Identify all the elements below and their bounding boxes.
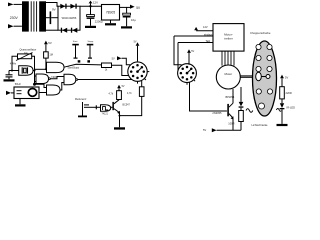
schmitt gate <box>101 105 111 112</box>
disc <box>253 41 277 116</box>
svg-text:Start: Start <box>73 40 78 43</box>
svg-text:220R: 220R <box>286 91 292 95</box>
gate A <box>47 62 65 72</box>
wire S1 to 4.7k <box>141 81 143 87</box>
svg-text:Start/Stopp: Start/Stopp <box>68 66 80 69</box>
resistor R6 220R <box>280 87 285 99</box>
motor M1 <box>216 65 240 89</box>
svg-text:4,7k: 4,7k <box>127 92 132 95</box>
motor wires <box>222 51 234 66</box>
regulator IC1 78S05 <box>102 5 120 21</box>
svg-text:5V: 5V <box>191 50 194 53</box>
svg-text:Chopperscheibe: Chopperscheibe <box>250 31 271 35</box>
svg-text:5V: 5V <box>122 85 125 88</box>
svg-text:Motor: Motor <box>224 72 232 76</box>
wire S2 to 2N3055 base <box>190 82 227 111</box>
svg-text:ein/aus: ein/aus <box>204 32 213 36</box>
5V arrow <box>280 75 284 79</box>
resistor R1 <box>45 44 47 52</box>
shaft <box>240 75 254 77</box>
osc output wire <box>33 70 35 72</box>
ground <box>121 26 132 28</box>
wire secondary mid tap <box>46 17 50 19</box>
LED D6 <box>280 103 284 108</box>
out rail <box>120 6 131 8</box>
ground <box>277 124 288 126</box>
trimmer capacitor C3 <box>18 54 32 59</box>
resistor R5 100R <box>239 111 244 122</box>
output arrow 5V <box>130 5 135 9</box>
wire <box>14 3 22 5</box>
bridge diode D2 <box>70 4 75 9</box>
wire gate to base <box>111 106 113 108</box>
capacitor C2 10u <box>126 7 128 13</box>
regulator gnd <box>110 20 112 23</box>
svg-text:12V: 12V <box>93 1 98 5</box>
resistor R2 1k <box>102 63 112 68</box>
vertical wire V1 <box>174 36 182 65</box>
gate B input stubs <box>35 75 37 77</box>
vertical wire V2 <box>177 43 179 72</box>
node +12V junction <box>89 5 91 7</box>
12V arrow <box>194 27 198 30</box>
input arrow <box>6 91 11 95</box>
divider box <box>14 87 39 99</box>
svg-text:10µ: 10µ <box>131 18 136 22</box>
svg-text:5V: 5V <box>285 76 288 80</box>
wire secondary top to bridge <box>46 3 58 7</box>
svg-text:Takt: Takt <box>206 39 211 43</box>
wire A gate A out to resistor <box>64 64 102 67</box>
svg-text:1M: 1M <box>50 54 53 57</box>
mains input terminal top <box>8 3 14 7</box>
wire C out to D in <box>60 83 64 91</box>
gate C input wires <box>35 84 47 87</box>
svg-text:5V: 5V <box>112 57 115 61</box>
svg-text:5V: 5V <box>134 40 137 43</box>
ticks <box>194 80 196 82</box>
switch S1 <box>128 62 147 81</box>
transformer Tr1 primary <box>22 1 29 31</box>
gate C <box>47 85 61 95</box>
bridge diode D4 <box>71 28 72 33</box>
svg-text:BC547: BC547 <box>123 104 131 107</box>
mains input terminal bottom <box>8 24 14 28</box>
svg-text:2N3055: 2N3055 <box>212 111 222 115</box>
wire <box>14 25 22 27</box>
svg-text:12V: 12V <box>203 25 208 29</box>
enable wire <box>174 35 213 37</box>
supply arrow 5V <box>44 41 48 45</box>
capacitor C1 2200u <box>90 6 92 14</box>
svg-text:IR-LED: IR-LED <box>287 106 296 110</box>
wire tap to bridge <box>51 17 58 19</box>
holes <box>256 44 273 109</box>
output wire <box>39 92 47 94</box>
svg-text:74121: 74121 <box>102 114 109 116</box>
resistor R3 4.7k <box>139 87 144 97</box>
light squiggle <box>246 109 253 113</box>
tap bar <box>50 11 52 24</box>
svg-text:9V: 9V <box>52 7 56 11</box>
ground <box>85 26 96 28</box>
bridge diode D3 <box>61 28 62 33</box>
gate D <box>64 74 76 84</box>
svg-text:50Hz: 50Hz <box>15 82 22 86</box>
bridge rectifier B1 outline <box>58 6 80 30</box>
feedback wire right <box>32 56 35 70</box>
svg-text:Quarzoszillator: Quarzoszillator <box>20 48 37 51</box>
transformer secondary <box>39 1 46 31</box>
svg-text:78S05: 78S05 <box>106 10 115 14</box>
ground <box>105 23 116 25</box>
gate B <box>36 74 49 84</box>
svg-text:Stopp: Stopp <box>88 40 94 43</box>
photodiode D5 <box>240 87 242 102</box>
svg-text:W04C/2W06: W04C/2W06 <box>62 16 77 20</box>
svg-text:Referenz: Referenz <box>75 97 87 101</box>
svg-text:5V: 5V <box>48 41 52 45</box>
transformer core <box>31 1 36 31</box>
svg-text:4MHz: 4MHz <box>10 63 17 66</box>
svg-text:treiber: treiber <box>224 37 233 41</box>
oscillator gate with crystal X1 <box>19 66 33 75</box>
ground <box>114 127 125 129</box>
svg-text:100R: 100R <box>228 121 234 125</box>
dc+ rail <box>80 5 102 7</box>
switch S2 <box>178 64 197 83</box>
switch ticks <box>144 79 146 81</box>
5V arrow above S2 <box>187 49 191 53</box>
wire gate D out to S1 <box>78 79 132 81</box>
bridge diode D1 <box>60 4 65 9</box>
feedback wire left <box>12 56 18 70</box>
svg-text:Lichtschranke: Lichtschranke <box>252 123 269 127</box>
5V arrow <box>117 85 121 89</box>
wire secondary bottom to bridge <box>46 29 58 31</box>
jack symbol <box>82 102 84 116</box>
supply arrow 12V <box>90 3 92 6</box>
svg-text:4,7k: 4,7k <box>109 93 114 96</box>
gnd <box>19 99 21 105</box>
svg-text:230V: 230V <box>10 16 19 20</box>
transistor T2 <box>227 104 229 116</box>
vertical to lower gates <box>34 71 36 85</box>
motor driver box <box>213 24 244 51</box>
wire resistor to S1 <box>112 65 129 75</box>
clock wire <box>178 42 213 44</box>
light squiggle <box>276 108 281 111</box>
capacitor C4 to ground <box>8 71 10 75</box>
wire gate input <box>9 70 19 72</box>
wire B out to D in <box>50 77 64 79</box>
hub <box>256 72 262 80</box>
ground <box>4 79 15 81</box>
svg-text:5V: 5V <box>203 128 206 132</box>
